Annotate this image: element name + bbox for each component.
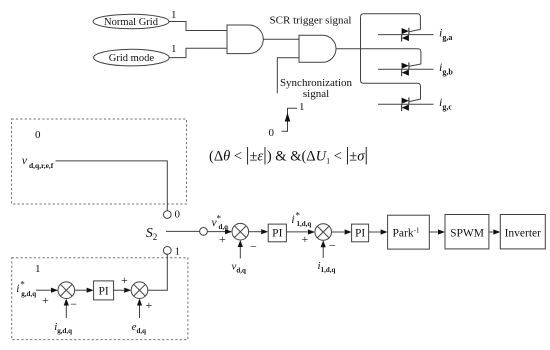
wire Grid mode to AND1 bottom input: [169, 48, 227, 57]
svg-text:−: −: [250, 239, 257, 253]
wire i_g,d,q arrow up into junction 1b: [65, 300, 67, 318]
AND gate 2: [299, 35, 336, 62]
svg-text:SPWM: SPWM: [450, 228, 484, 240]
wire Normal Grid to AND1 top input: [169, 22, 227, 31]
wire vertical bus: [360, 17, 362, 81]
svg-text:d,q,r,e,f: d,q,r,e,f: [29, 161, 54, 170]
svg-text:0: 0: [175, 209, 181, 221]
PI box (voltage loop): [268, 224, 286, 242]
summing junction 1: [232, 223, 249, 240]
svg-text:PI: PI: [272, 228, 282, 240]
triac c: [378, 97, 434, 111]
svg-text:−: −: [329, 239, 336, 253]
wire junction 1 to PI box 1: [249, 231, 261, 233]
svg-text:0: 0: [269, 127, 275, 139]
wire junction 1b to PI box b: [75, 289, 87, 291]
Park inverse box: [388, 215, 430, 249]
transition symbol 0 to 1: [282, 108, 298, 131]
dashed box 0: [12, 119, 187, 204]
wire switch common to summing junction 1: [207, 231, 225, 233]
wire PI b to summing junction 2b: [114, 289, 124, 291]
SPWM box: [445, 215, 489, 249]
svg-text:v: v: [22, 153, 28, 167]
ellipse Grid mode: [94, 49, 170, 66]
PI box (current loop): [352, 224, 369, 242]
wire synchronization signal to AND2 bottom input: [277, 58, 299, 93]
wire gate feed c: [361, 80, 421, 102]
svg-text:1: 1: [175, 246, 181, 258]
svg-text:*: *: [296, 211, 301, 221]
wire AND2 output to vertical bus and gate b feed: [336, 49, 421, 67]
svg-text:PI: PI: [98, 286, 108, 298]
svg-text:1: 1: [171, 43, 177, 55]
svg-text:1: 1: [299, 101, 305, 113]
svg-text:−: −: [70, 297, 77, 311]
svg-text:1: 1: [35, 263, 41, 275]
svg-text:(Δθ < |±ε|) & &(ΔU1 < |±σ|: (Δθ < |±ε|) & &(ΔU1 < |±σ|: [209, 146, 368, 166]
summing junction 2b: [131, 282, 148, 299]
svg-text:0: 0: [35, 129, 41, 141]
svg-text:+: +: [42, 293, 49, 307]
svg-text:1,d,q: 1,d,q: [297, 220, 312, 228]
svg-text:SCR trigger signal: SCR trigger signal: [270, 15, 352, 27]
svg-text:i: i: [16, 283, 19, 295]
svg-text:+: +: [121, 273, 128, 287]
wire SPWM to Inverter: [489, 231, 493, 233]
wire S2 to common contact: [166, 230, 200, 232]
svg-text:Inverter: Inverter: [505, 228, 542, 240]
PI box b: [94, 281, 114, 300]
AND gate 1: [227, 25, 263, 54]
triac a: [378, 28, 434, 42]
ellipse Normal Grid: [93, 14, 169, 28]
svg-text:Grid mode: Grid mode: [109, 53, 155, 64]
wire junction 2 to PI box 2: [332, 231, 345, 233]
svg-text:+: +: [146, 298, 153, 312]
contact 1 circle: [163, 247, 171, 255]
svg-text:g,d,q: g,d,q: [21, 290, 36, 298]
wire i_1,d,q arrow up into junction 2: [322, 242, 324, 258]
wire Park to SPWM: [429, 231, 438, 233]
svg-text:PI: PI: [355, 228, 365, 240]
wire e_d,q arrow up into junction 2b: [139, 300, 141, 318]
svg-text:+: +: [219, 232, 226, 246]
Inverter box: [500, 215, 545, 249]
contact 0 circle: [164, 211, 172, 219]
summing junction 2: [315, 224, 332, 241]
svg-text:*: *: [217, 214, 222, 224]
wire gate feed a: [361, 14, 421, 32]
triac b: [378, 62, 434, 76]
wire PI 2 to Park box: [369, 231, 381, 233]
wire AND1 output to AND2: [263, 38, 299, 40]
wire v_d,q arrow up into junction 1: [239, 242, 241, 259]
wire v_d,q,ref to contact 0: [56, 161, 168, 211]
svg-text:i: i: [291, 214, 294, 226]
dashed box 1: [12, 258, 188, 340]
svg-text:signal: signal: [303, 88, 329, 100]
svg-text:*: *: [20, 280, 25, 290]
wire i*_g,d,q to summing junction 1b: [36, 289, 51, 291]
svg-text:Normal Grid: Normal Grid: [104, 17, 159, 28]
wire junction 2b output up to contact 1: [148, 254, 168, 290]
wire PI 1 to summing junction 2: [286, 231, 307, 233]
summing junction 1b: [58, 282, 75, 299]
svg-text:+: +: [302, 232, 309, 246]
svg-text:1: 1: [171, 9, 177, 21]
switch common contact circle: [200, 228, 208, 236]
